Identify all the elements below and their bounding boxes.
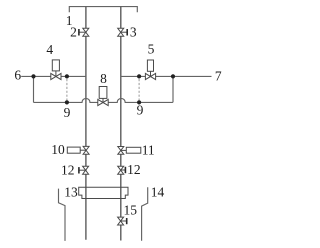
wire right drop [172,76,174,102]
svg-text:7: 7 [215,68,222,83]
valve 4 (horizontal, actuator box above) [51,60,61,80]
svg-text:4: 4 [46,42,53,57]
valve 12 right (vertical, stub right) [118,166,126,174]
svg-text:8: 8 [100,71,107,86]
node junction dot E (66.9,102.4) [65,100,69,104]
svg-text:15: 15 [124,203,138,218]
svg-text:2: 2 [70,25,77,40]
node junction dot D (173,76.4) [171,74,175,78]
valve 10 (vertical, box left) [67,146,89,154]
wire right bottom jog pipe [142,187,148,241]
node junction dot A (33.5,76.4) [31,74,35,78]
wire line 6 horizontal [21,75,86,77]
svg-text:9: 9 [137,102,144,117]
wire left main vertical [85,7,87,240]
wire left drop [33,76,35,102]
top header bracket [69,7,137,13]
valve 12 left (vertical, stub left) [79,166,89,174]
valve 11 (vertical, box right) [118,147,141,155]
wire right main vertical [120,7,122,241]
svg-text:6: 6 [14,68,21,83]
node junction dot C (139.1,76.4) [137,74,141,78]
manifold vessel 13 [79,187,128,198]
node junction dot F (139.1,102.4) [137,100,141,104]
wire dashed link right [138,79,140,100]
svg-text:10: 10 [51,142,65,157]
svg-text:11: 11 [142,142,155,157]
wire dashed link left [66,79,68,100]
svg-text:13: 13 [64,185,78,200]
wire line 7 horizontal [121,75,212,77]
wire left bottom jog pipe [59,189,66,241]
node junction dot B (66.9,76.4) [65,74,69,78]
svg-text:5: 5 [148,42,155,57]
wire lower header with crossover humps [34,98,173,102]
svg-text:14: 14 [151,185,165,200]
valve 2 (vertical, stub left) [79,28,89,36]
valve 3 (vertical, stub right) [118,28,128,36]
valve 15 (vertical, stub right) [118,217,127,225]
svg-text:3: 3 [130,24,137,39]
svg-text:9: 9 [64,105,71,120]
valve 8 (horizontal, actuator box above) [98,87,108,106]
svg-text:12: 12 [61,163,75,178]
valve 5 (horizontal, actuator box above) [145,60,155,80]
svg-text:12: 12 [127,162,141,177]
